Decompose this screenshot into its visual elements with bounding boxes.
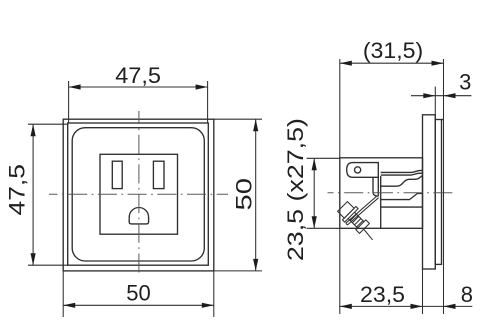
svg-text:23,5: 23,5 xyxy=(360,282,405,306)
svg-text:(31,5): (31,5) xyxy=(363,38,423,62)
svg-text:8: 8 xyxy=(461,282,473,307)
svg-text:50: 50 xyxy=(126,281,150,306)
svg-text:50: 50 xyxy=(233,178,257,211)
svg-text:3: 3 xyxy=(459,70,471,95)
svg-text:47,5: 47,5 xyxy=(115,63,161,88)
svg-text:47,5: 47,5 xyxy=(5,164,29,215)
svg-text:23,5 (x27,5): 23,5 (x27,5) xyxy=(284,118,308,261)
